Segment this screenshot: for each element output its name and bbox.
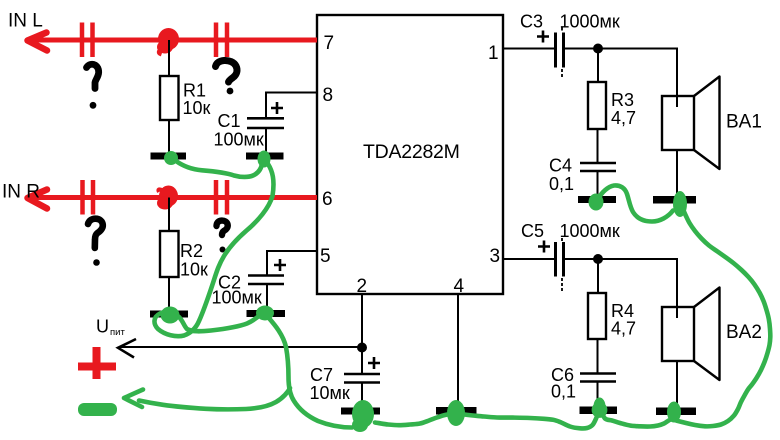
svg-text:BA2: BA2	[726, 322, 762, 343]
svg-text:C1: C1	[218, 111, 241, 131]
svg-text:IN R: IN R	[2, 182, 40, 203]
question mark 2b	[217, 221, 228, 253]
op-amp U1 TDA2282M IC body	[317, 15, 503, 294]
ground R2	[150, 311, 188, 318]
wire pin 3 to C5	[503, 258, 554, 260]
wire node to R4	[597, 259, 599, 292]
resistor R4	[588, 293, 606, 339]
wire C3 to node and BA1	[564, 49, 678, 108]
green blob ground C2	[256, 306, 274, 321]
wire C1 to ground	[265, 128, 267, 153]
label C1 value	[214, 111, 264, 150]
wire BA2 to ground	[676, 361, 678, 407]
question mark 1b	[216, 60, 238, 94]
green marker line C1 down across IN R to R2 loop to C2	[154, 164, 273, 336]
green blob ground pin4	[447, 400, 465, 426]
svg-text:C5: C5	[521, 221, 544, 241]
node junction C5/R4	[593, 254, 603, 264]
label R4 value	[611, 301, 636, 339]
wire R1 to ground	[168, 120, 170, 153]
capacitor red input R plate 1	[83, 180, 94, 215]
svg-text:C3: C3	[520, 12, 543, 32]
wire red blob R down to R2	[168, 198, 170, 232]
svg-text:7: 7	[324, 33, 335, 54]
svg-text:10мк: 10мк	[310, 383, 350, 403]
wire IN L red line to pin 7	[27, 38, 317, 43]
wire Upit arrow line	[120, 346, 362, 348]
red arrowhead IN R	[28, 190, 48, 209]
svg-text:TDA2282M: TDA2282M	[363, 141, 460, 163]
svg-text:4,7: 4,7	[611, 108, 636, 128]
ground C7	[341, 408, 380, 415]
ground BA2	[656, 408, 696, 416]
wire R4 to C6	[597, 339, 599, 373]
label C3 value	[520, 12, 620, 32]
svg-text:1: 1	[488, 43, 499, 64]
wire red blob L down to R1	[168, 40, 170, 76]
label R1 value	[183, 81, 211, 119]
capacitor C4	[580, 163, 616, 171]
label C4 value	[549, 156, 574, 195]
wire BA1 to ground	[676, 150, 678, 196]
svg-text:5: 5	[320, 246, 331, 267]
ground C4	[578, 196, 616, 203]
capacitor red input L plate 2	[216, 23, 227, 58]
wire pin 1 to C3	[503, 48, 554, 50]
svg-text:8: 8	[323, 85, 334, 106]
plus terminal red	[78, 347, 116, 379]
node junction pin2/C7/Upit	[357, 343, 367, 353]
resistor R1	[160, 76, 179, 120]
wire IN R red line to pin 6	[27, 195, 317, 200]
ground pin 4	[436, 407, 477, 415]
red blob node R	[159, 186, 178, 207]
svg-text:1000мк: 1000мк	[560, 221, 620, 241]
svg-text:U: U	[96, 317, 109, 337]
svg-text:C4: C4	[549, 156, 572, 176]
label Upit	[96, 317, 125, 339]
svg-text:0,1: 0,1	[549, 174, 574, 194]
svg-text:10к: 10к	[183, 98, 211, 118]
ground C2	[247, 310, 286, 317]
green blob ground R1	[164, 151, 178, 165]
svg-text:100мк: 100мк	[214, 130, 264, 150]
svg-text:10к: 10к	[180, 260, 208, 280]
ground C1	[246, 153, 284, 160]
wire C7 to ground	[361, 383, 363, 409]
wire C6 to ground	[597, 382, 599, 409]
capacitor C5	[538, 238, 564, 293]
green marker line grounds R1-C1	[176, 161, 262, 177]
green blob ground C4	[589, 194, 604, 211]
resistor R3	[588, 82, 606, 129]
wire node to R3	[597, 49, 599, 83]
svg-text:4,7: 4,7	[611, 319, 636, 339]
wire C5 to node and BA2	[564, 259, 678, 318]
capacitor C6	[580, 374, 616, 382]
label R3 value	[611, 90, 636, 128]
green blob ground C1	[258, 151, 271, 168]
capacitor C7	[344, 357, 380, 383]
svg-text:3: 3	[490, 246, 501, 267]
green marker line C2 down to C7	[268, 317, 352, 428]
wire C4 to ground	[597, 171, 599, 197]
svg-text:C7: C7	[310, 365, 333, 385]
green arrowhead minus	[124, 390, 143, 408]
green marker arrow to minus	[139, 388, 290, 409]
svg-text:R2: R2	[180, 241, 203, 261]
ground BA1	[653, 196, 696, 204]
wire R3 to C4	[597, 129, 599, 162]
svg-text:6: 6	[322, 189, 333, 210]
green blob ground C7	[352, 400, 374, 432]
capacitor C2	[248, 259, 286, 284]
svg-text:1000мк: 1000мк	[560, 12, 620, 32]
label C2 value	[212, 273, 262, 308]
label C5 value	[521, 221, 620, 241]
question mark 1a	[87, 64, 99, 108]
svg-text:пит: пит	[110, 327, 125, 338]
black arrowhead Upit	[118, 339, 136, 358]
wire pin 2 down	[361, 294, 363, 373]
question mark 2a	[88, 219, 103, 266]
speaker BA1	[662, 77, 720, 170]
ground C6	[580, 407, 618, 415]
wire R2 to ground	[168, 277, 170, 311]
green blob ground BA2	[667, 402, 681, 423]
green marker line C4 gnd to BA1 gnd	[598, 185, 673, 221]
svg-text:0,1: 0,1	[551, 382, 576, 402]
red arrowhead IN L	[28, 33, 48, 51]
ground R1	[151, 153, 187, 160]
wire pin 8 to C1	[266, 93, 317, 118]
green blob ground BA1	[673, 191, 687, 217]
wire pin 4 down to ground	[457, 294, 459, 408]
wire pin 5 to C2	[267, 251, 317, 275]
wire C2 to ground	[266, 284, 268, 310]
label R2 value	[180, 241, 208, 280]
svg-text:2: 2	[357, 276, 368, 297]
svg-text:100мк: 100мк	[212, 288, 262, 308]
svg-text:4: 4	[454, 276, 465, 297]
speaker BA2	[662, 288, 720, 381]
label C6 value	[551, 365, 576, 402]
capacitor C1	[247, 102, 284, 128]
svg-text:R3: R3	[611, 90, 634, 110]
green blob ground C6	[593, 398, 606, 417]
minus terminal green	[78, 403, 117, 416]
red blob node L	[157, 28, 179, 55]
node junction C3/R3	[593, 44, 603, 54]
capacitor C3	[537, 28, 564, 80]
capacitor red input R plate 2	[216, 180, 227, 215]
svg-text:BA1: BA1	[726, 112, 762, 133]
svg-text:IN L: IN L	[8, 11, 43, 32]
label C7 value	[310, 365, 350, 403]
green marker line bottom C7 to right side up to BA1	[375, 203, 770, 428]
capacitor red input L plate 1	[82, 23, 93, 58]
resistor R2	[160, 231, 179, 277]
green blob ground R2	[161, 307, 180, 324]
